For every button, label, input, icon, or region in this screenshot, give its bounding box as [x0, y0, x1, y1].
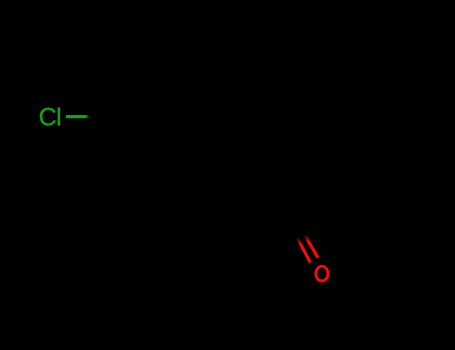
bond Cl-C (green half): [66, 115, 91, 118]
double bond C=O line 2: [305, 235, 318, 258]
svg-text:l: l: [56, 104, 62, 132]
atom label O: [316, 266, 328, 281]
double bond C=O line 1: [297, 237, 310, 262]
svg-text:C: C: [39, 104, 57, 132]
